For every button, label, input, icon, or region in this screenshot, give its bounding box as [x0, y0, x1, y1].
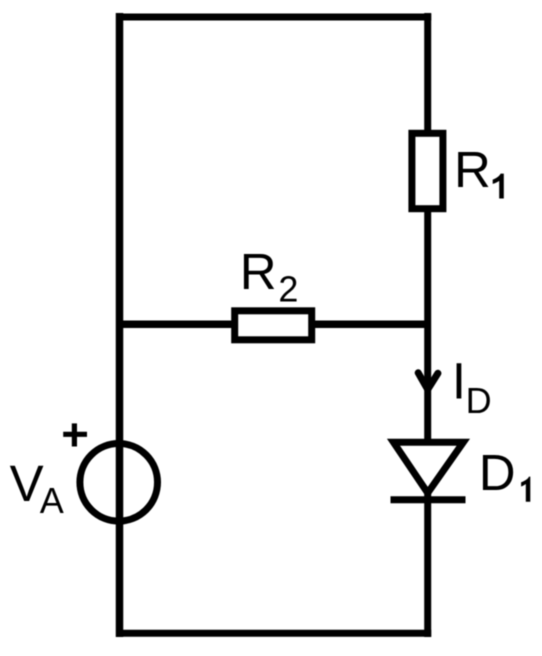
svg-text:I: I — [452, 352, 466, 409]
svg-text:D: D — [466, 380, 492, 421]
svg-text:R: R — [454, 141, 491, 198]
svg-text:V: V — [10, 455, 44, 512]
svg-text:D: D — [479, 444, 516, 501]
svg-text:A: A — [40, 480, 64, 521]
svg-text:2: 2 — [278, 268, 298, 309]
svg-text:R: R — [240, 243, 277, 300]
